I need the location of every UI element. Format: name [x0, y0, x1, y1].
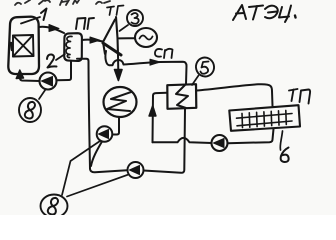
- ПГ coil: [66, 36, 72, 57]
- arrow up into reactor: [16, 70, 23, 79]
- return riser into heater: [153, 93, 168, 143]
- steam generator vessel: [64, 33, 82, 61]
- network heater 5: [167, 84, 196, 109]
- arrow up on riser: [149, 106, 156, 117]
- leader to condensate pump: [62, 141, 100, 195]
- label АТЭЦ: [233, 5, 296, 22]
- label 1: [41, 9, 47, 21]
- arrow on hot leg: [49, 25, 59, 32]
- callout 5 (heater): [192, 55, 216, 85]
- callout 8 (primary pump): [19, 90, 46, 123]
- label ТП: [289, 89, 310, 104]
- shaft turbine->generator: [119, 37, 135, 39]
- label ПГ: [76, 18, 94, 29]
- label 2: [47, 54, 57, 67]
- condenser: [104, 87, 137, 117]
- title fragment (cut off at top): [15, 0, 110, 5]
- turbine ТГ: [103, 17, 121, 55]
- callout 8 (pumps, bottom): [41, 141, 129, 218]
- heater zigzag: [176, 85, 188, 108]
- exhaust arrowhead: [115, 70, 123, 81]
- generator: [135, 28, 157, 47]
- cold leg ПГ->pump: [57, 61, 71, 80]
- leader for 1: [21, 17, 40, 24]
- pump discharge down: [91, 142, 102, 167]
- heater drain pipe: [144, 109, 186, 173]
- network pump: [212, 135, 228, 151]
- primary pump: [40, 73, 57, 90]
- radiator lines: [237, 110, 293, 127]
- return main ТП->pump: [228, 129, 274, 143]
- turbine exhaust to condenser: [117, 55, 119, 72]
- leader for 6: [280, 131, 282, 150]
- leader to drain pump: [67, 175, 129, 197]
- condenser zigzag: [107, 92, 131, 111]
- condensate pump: [97, 126, 113, 142]
- extraction pipe to сп: [105, 51, 186, 84]
- label ТГ: [107, 6, 124, 16]
- heat consumer ТП box: [229, 105, 300, 131]
- leader for 2: [56, 54, 65, 60]
- drain pump (from heater): [128, 162, 144, 178]
- condensate pipe condenser->pump: [113, 117, 120, 135]
- cold leg pump->reactor: [20, 78, 40, 81]
- ink spot on vessel edge: [11, 43, 12, 50]
- feedwater riser to ПГ: [77, 59, 127, 173]
- supply main heater->ТП: [197, 84, 273, 106]
- main steam pipe ПГ->turbine: [82, 40, 103, 42]
- label 6: [281, 148, 289, 163]
- label сп: [155, 49, 173, 58]
- reactor core square: [13, 35, 34, 57]
- generator tilde: [140, 35, 153, 39]
- arrow on main steam pipe: [90, 37, 100, 43]
- hot leg pipe reactor->ПГ: [39, 27, 64, 33]
- arrow on extraction pipe: [150, 59, 160, 65]
- return main pump->riser with hop: [153, 138, 212, 143]
- reactor vessel: [8, 17, 39, 74]
- callout 3 (turbine): [120, 10, 144, 31]
